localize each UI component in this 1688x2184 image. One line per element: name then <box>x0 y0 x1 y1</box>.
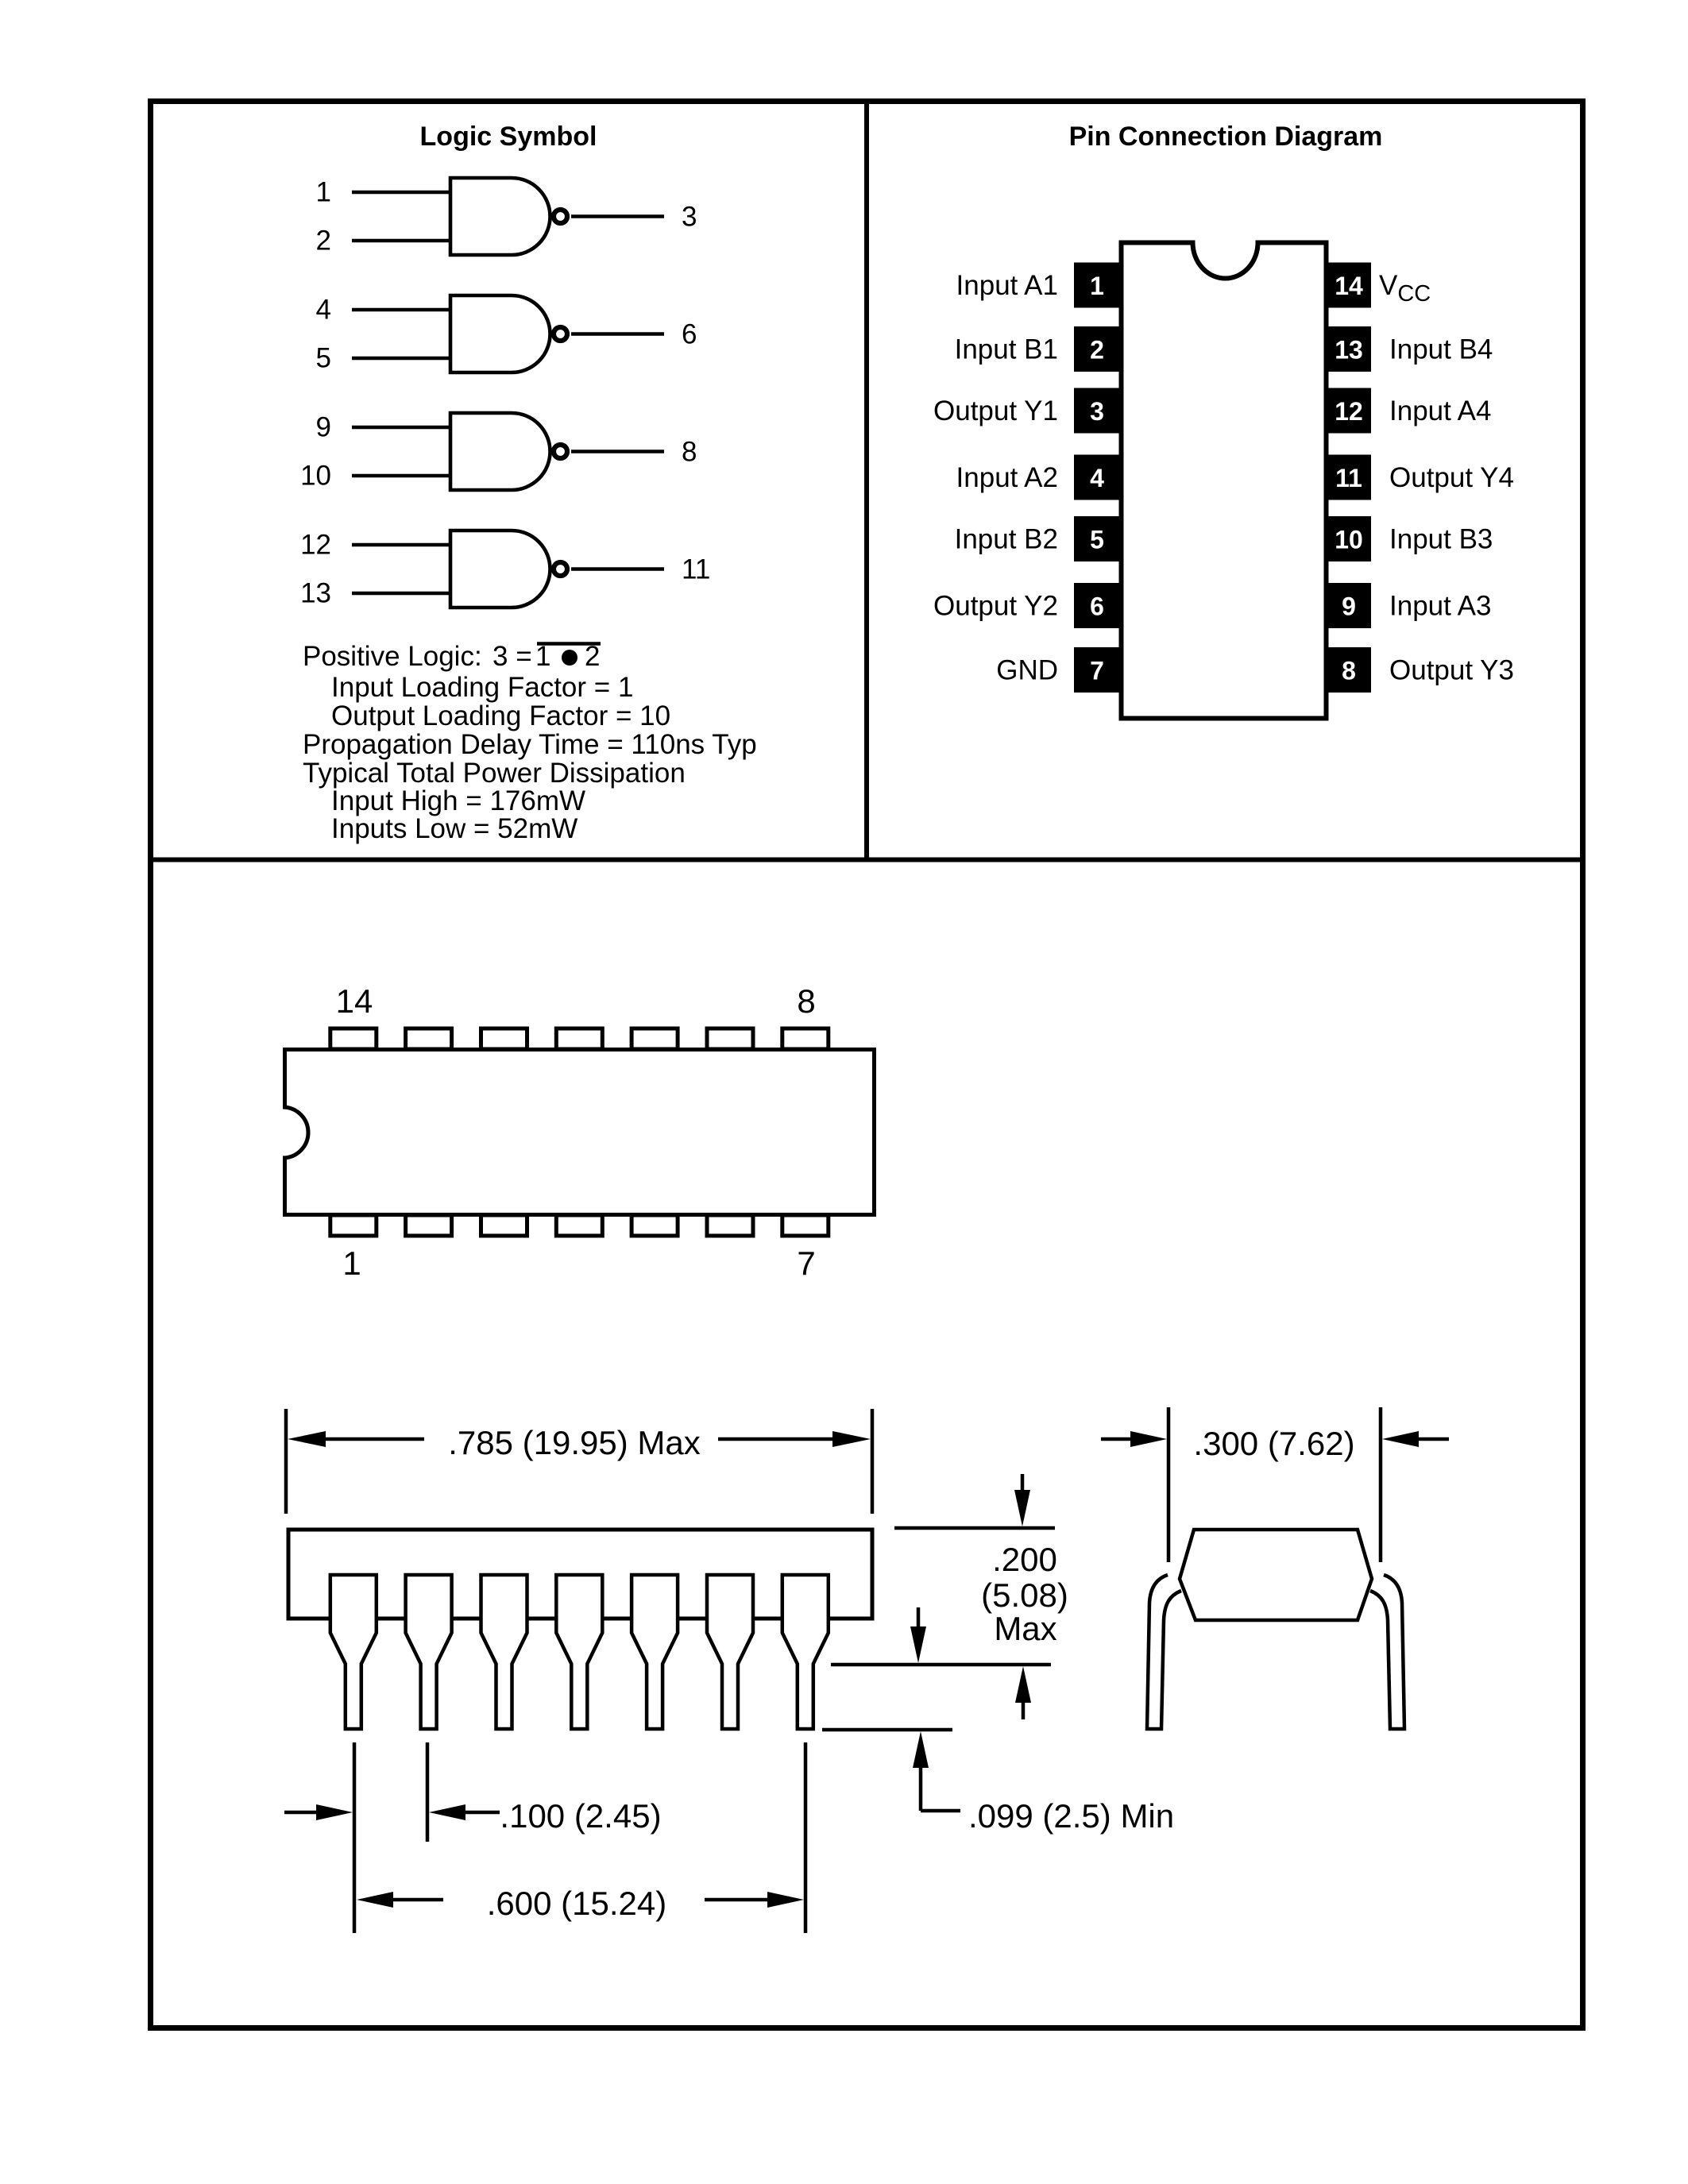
svg-text:Pin Connection Diagram: Pin Connection Diagram <box>1069 122 1383 152</box>
svg-text:Output Y4: Output Y4 <box>1389 462 1514 493</box>
package side view: lead 2 <box>406 1575 452 1729</box>
pin 2: Input B1 <box>955 326 1121 372</box>
svg-text:Input B2: Input B2 <box>955 524 1058 555</box>
NAND gate 3 inversion bubble <box>554 445 567 458</box>
package end view: DIP body <box>1180 1530 1372 1620</box>
svg-text:6: 6 <box>1090 592 1104 621</box>
package end view: left lead <box>1147 1575 1181 1729</box>
NAND gate 4 body <box>450 531 550 608</box>
svg-text:Input Loading Factor = 1: Input Loading Factor = 1 <box>331 672 633 703</box>
pin number label 1 <box>316 177 331 208</box>
package top view: pins 14..8 top row <box>330 1028 829 1049</box>
svg-text:11: 11 <box>682 554 710 585</box>
pin 6: Output Y2 <box>933 583 1121 628</box>
value label: Positive Logic equation 3 = NOT(1 AND 2) <box>303 641 601 672</box>
U1 DIP-14 package body with index notch <box>1122 243 1327 719</box>
svg-text:8: 8 <box>797 982 815 1020</box>
NAND gate 3 body <box>450 413 550 490</box>
svg-text:Output Y3: Output Y3 <box>1389 655 1514 686</box>
pin number label 6 <box>682 319 697 350</box>
wire: output pin 6 of gate 2 <box>571 332 664 336</box>
package side view: lead 7 <box>782 1575 829 1729</box>
svg-text:13: 13 <box>300 578 331 609</box>
dimension .300 (7.62) <box>1101 1407 1449 1562</box>
svg-text:.100 (2.45): .100 (2.45) <box>500 1797 661 1835</box>
package side view: lead 6 <box>707 1575 753 1729</box>
svg-text:(5.08): (5.08) <box>981 1576 1068 1614</box>
NAND gate 2 body <box>450 295 550 372</box>
pin number label 10 <box>300 461 331 492</box>
svg-text:Input B3: Input B3 <box>1389 524 1493 555</box>
svg-text:1: 1 <box>316 177 331 208</box>
svg-text:3: 3 <box>1090 397 1104 426</box>
package side view: DIP body <box>288 1530 872 1619</box>
svg-text:2: 2 <box>316 226 331 257</box>
svg-text:1: 1 <box>342 1244 361 1282</box>
svg-text:11: 11 <box>1335 464 1362 492</box>
pin number label 4 <box>316 295 331 326</box>
wire: output pin 3 of gate 1 <box>571 214 664 218</box>
pin 4: Input A2 <box>956 455 1121 500</box>
wire: input pin 2 of gate 1 <box>352 239 452 243</box>
package top view: index notch <box>283 1107 308 1158</box>
package side view: lead 3 <box>481 1575 527 1729</box>
svg-text:14: 14 <box>336 982 373 1020</box>
wire: input pin 5 of gate 2 <box>352 357 452 361</box>
svg-text:Output Y2: Output Y2 <box>933 591 1058 622</box>
svg-text:Max: Max <box>994 1610 1056 1647</box>
svg-text:.785 (19.95) Max: .785 (19.95) Max <box>448 1424 701 1461</box>
wire: input pin 13 of gate 4 <box>352 592 452 596</box>
svg-text:2: 2 <box>1090 336 1104 365</box>
value label: Input Loading Factor <box>331 672 633 703</box>
svg-text:9: 9 <box>316 412 331 443</box>
wire: output pin 11 of gate 4 <box>571 567 664 571</box>
pin number label 2 <box>316 226 331 257</box>
wire: input pin 10 of gate 3 <box>352 474 452 478</box>
svg-text:5: 5 <box>1090 526 1104 554</box>
svg-text:3 =: 3 = <box>492 641 532 672</box>
pin number label 3 <box>682 202 697 233</box>
svg-text:7: 7 <box>797 1244 815 1282</box>
pin number label 11 <box>682 554 710 585</box>
svg-text:13: 13 <box>1335 336 1363 365</box>
package end view: right lead <box>1370 1575 1404 1729</box>
pin 12: Input A4 <box>1327 388 1491 434</box>
svg-text:10: 10 <box>300 461 331 492</box>
package top view: DIP body <box>285 1050 875 1215</box>
svg-text:4: 4 <box>316 295 331 326</box>
svg-text:Input B4: Input B4 <box>1389 334 1493 365</box>
dimension .600 (15.24) <box>357 1742 805 1933</box>
pin 11: Output Y4 <box>1327 455 1514 500</box>
svg-text:6: 6 <box>682 319 697 350</box>
svg-text:3: 3 <box>682 202 697 233</box>
pin 9: Input A3 <box>1327 583 1491 628</box>
wire: input pin 12 of gate 4 <box>352 543 452 547</box>
package top view: pins 1..7 bottom row <box>330 1215 829 1236</box>
wire: input pin 4 of gate 2 <box>352 308 452 312</box>
pin number label 8 <box>682 437 697 468</box>
svg-text:14: 14 <box>1335 272 1363 300</box>
svg-text:.099 (2.5) Min: .099 (2.5) Min <box>968 1797 1174 1835</box>
value label: Typical Total Power Dissipation <box>303 758 686 789</box>
pin number label 1 <box>342 1244 361 1282</box>
dimension .785 (19.95) Max <box>286 1409 872 1514</box>
wire: output pin 8 of gate 3 <box>571 450 664 453</box>
wire: input pin 9 of gate 3 <box>352 426 452 430</box>
title: Logic Symbol <box>420 122 597 152</box>
NAND gate 1 inversion bubble <box>554 210 567 223</box>
pin 5: Input B2 <box>955 516 1121 561</box>
dimension .100 (2.45) <box>284 1742 500 1933</box>
svg-text:1: 1 <box>1090 272 1104 300</box>
NAND gate 1 body <box>450 178 550 255</box>
svg-text:GND: GND <box>996 655 1058 686</box>
title: Pin Connection Diagram <box>1069 122 1383 152</box>
svg-text:9: 9 <box>1342 592 1356 621</box>
pin number label 8 <box>797 982 815 1020</box>
pin 8: Output Y3 <box>1327 647 1514 693</box>
pin number label 9 <box>316 412 331 443</box>
svg-text:Input A2: Input A2 <box>956 462 1058 493</box>
svg-text:Propagation Delay Time = 110ns: Propagation Delay Time = 110ns Typ <box>303 729 757 760</box>
svg-text:Input A3: Input A3 <box>1389 591 1491 622</box>
svg-text:2: 2 <box>585 641 600 672</box>
svg-text:.200: .200 <box>992 1541 1057 1578</box>
value label: Inputs Low power <box>331 813 577 844</box>
pin number label 12 <box>300 530 331 561</box>
pin 3: Output Y1 <box>933 388 1121 434</box>
pin 10: Input B3 <box>1327 516 1493 561</box>
svg-text:.600 (15.24): .600 (15.24) <box>487 1885 667 1922</box>
pin 13: Input B4 <box>1327 326 1493 372</box>
svg-text:8: 8 <box>682 437 697 468</box>
value label: Input High power <box>331 785 585 816</box>
NAND gate 2 inversion bubble <box>554 327 567 341</box>
svg-text:7: 7 <box>1090 657 1104 685</box>
package side view: lead 5 <box>632 1575 678 1729</box>
NAND gate 4 inversion bubble <box>554 562 567 576</box>
package side view: lead 1 <box>330 1575 377 1729</box>
svg-text:12: 12 <box>1335 397 1363 426</box>
pin number label 7 <box>797 1244 815 1282</box>
svg-text:12: 12 <box>300 530 331 561</box>
svg-text:Logic Symbol: Logic Symbol <box>420 122 597 152</box>
svg-text:Input High = 176mW: Input High = 176mW <box>331 785 585 816</box>
package side view: lead 4 <box>556 1575 602 1729</box>
pin 1: Input A1 <box>956 263 1121 308</box>
svg-text:Output Y1: Output Y1 <box>933 396 1058 426</box>
svg-text:Output Loading Factor = 10: Output Loading Factor = 10 <box>331 700 670 731</box>
dimension .200 (5.08) Max <box>831 1474 1055 1719</box>
value label: Output Loading Factor <box>331 700 670 731</box>
pin 7: GND <box>996 647 1121 693</box>
pin 14: VCC <box>1327 263 1431 308</box>
pin number label 5 <box>316 343 331 374</box>
dimension .099 (2.5) Min <box>822 1730 960 1811</box>
pin number label 14 <box>336 982 373 1020</box>
svg-text:Typical Total Power Dissipatio: Typical Total Power Dissipation <box>303 758 686 789</box>
svg-text:Positive Logic:: Positive Logic: <box>303 641 482 672</box>
svg-text:4: 4 <box>1090 464 1104 492</box>
pin number label 13 <box>300 578 331 609</box>
svg-text:5: 5 <box>316 343 331 374</box>
svg-text:1: 1 <box>535 641 550 672</box>
value label: Propagation Delay Time <box>303 729 757 760</box>
wire: input pin 1 of gate 1 <box>352 191 452 195</box>
svg-text:.300 (7.62): .300 (7.62) <box>1193 1425 1354 1462</box>
svg-text:Input A4: Input A4 <box>1389 396 1491 426</box>
svg-text:Input A1: Input A1 <box>956 270 1058 301</box>
svg-text:8: 8 <box>1342 657 1356 685</box>
svg-text:10: 10 <box>1335 526 1363 554</box>
svg-text:Inputs Low = 52mW: Inputs Low = 52mW <box>331 813 577 844</box>
svg-text:Input B1: Input B1 <box>955 334 1058 365</box>
